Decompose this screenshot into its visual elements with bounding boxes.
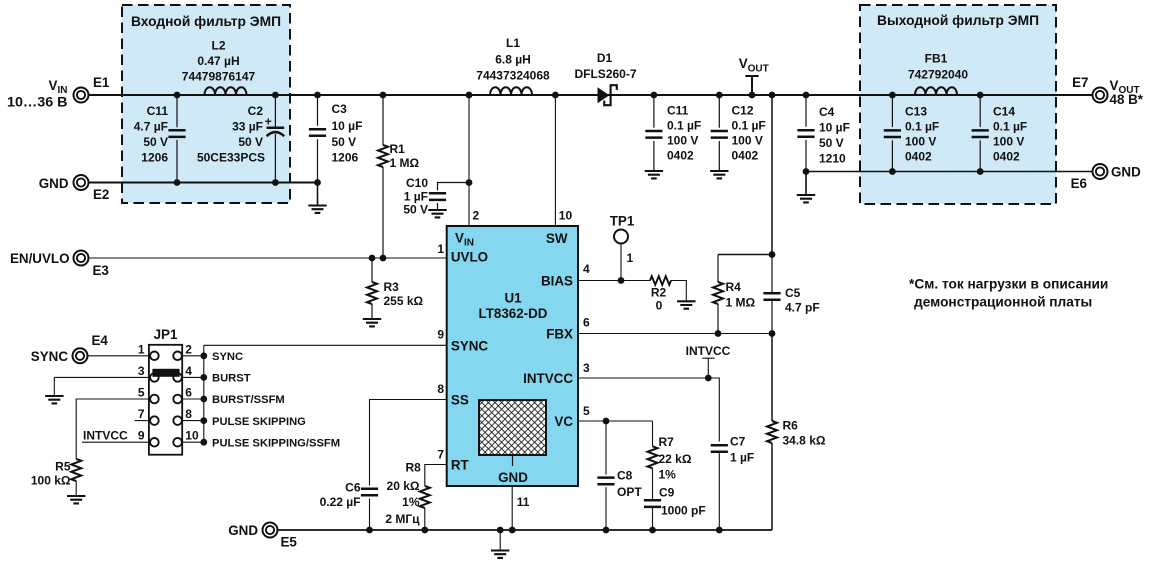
- wire: EN/UVLO line to pin 1: [89, 257, 447, 259]
- svg-text:INTVCC: INTVCC: [523, 371, 573, 386]
- wire: main top rail VIN to VOUT: [89, 94, 1093, 96]
- JP1 pin circles right column: [173, 352, 182, 361]
- capacitor C12: [718, 95, 720, 171]
- svg-text:R2: R2: [651, 286, 667, 300]
- wire: VC pin 5 line: [578, 420, 653, 422]
- node: junction C11 output: [651, 92, 658, 99]
- node: junction C2 top: [272, 92, 279, 99]
- capacitor C11 output: [653, 95, 655, 171]
- capacitor C3: [317, 95, 319, 183]
- svg-text:R6: R6: [783, 419, 799, 433]
- capacitor C11 input: [176, 95, 178, 183]
- JP1 pin circles left column: [150, 352, 159, 361]
- svg-text:INTVCC: INTVCC: [83, 429, 128, 443]
- svg-text:BIAS: BIAS: [541, 273, 573, 288]
- input EMI filter box: [122, 5, 290, 203]
- svg-text:100 V: 100 V: [993, 135, 1024, 149]
- svg-text:D1: D1: [597, 51, 613, 65]
- node: junction C14 bottom: [977, 168, 984, 175]
- svg-text:2: 2: [185, 342, 192, 356]
- capacitor C2 (polarized): [274, 95, 276, 183]
- node: junction C6 bottom: [366, 527, 373, 534]
- wire: JP1 pin3 to ground: [54, 377, 150, 396]
- svg-text:50 V: 50 V: [238, 135, 263, 149]
- svg-text:Выходной фильтр ЭМП: Выходной фильтр ЭМП: [877, 13, 1039, 28]
- svg-text:SYNC: SYNC: [31, 349, 69, 364]
- svg-text:1 МΩ: 1 МΩ: [390, 156, 420, 170]
- resistor R5: [71, 459, 81, 481]
- ground below C12: [710, 171, 728, 178]
- svg-text:SYNC: SYNC: [212, 351, 243, 363]
- resistor R4: [717, 255, 719, 334]
- svg-text:10 µF: 10 µF: [332, 119, 363, 133]
- svg-text:RT: RT: [451, 457, 470, 472]
- svg-text:1 МΩ: 1 МΩ: [726, 296, 756, 310]
- svg-text:1%: 1%: [659, 467, 677, 481]
- resistor R3: [371, 258, 373, 319]
- svg-text:34.8 kΩ: 34.8 kΩ: [783, 434, 826, 448]
- svg-text:0.1 µF: 0.1 µF: [732, 119, 766, 133]
- svg-text:GND: GND: [498, 470, 528, 485]
- svg-text:5: 5: [583, 404, 590, 418]
- svg-text:1206: 1206: [332, 151, 359, 165]
- svg-text:E1: E1: [93, 75, 110, 90]
- svg-text:C7: C7: [730, 434, 746, 448]
- wire: BIAS pin 4: [578, 280, 650, 282]
- svg-text:74437324068: 74437324068: [476, 69, 550, 83]
- node: junction C3 top: [314, 92, 321, 99]
- wire: RT pin 7 to R8: [425, 465, 447, 487]
- svg-text:Входной фильтр ЭМП: Входной фильтр ЭМП: [131, 14, 281, 29]
- svg-text:C14: C14: [993, 105, 1015, 119]
- resistor R6: [771, 334, 773, 531]
- svg-text:L2: L2: [211, 39, 225, 53]
- wire: JP1 pin7 stub: [135, 420, 151, 422]
- node: junction R4 FBX: [715, 330, 722, 337]
- svg-text:E4: E4: [92, 333, 109, 348]
- node: junction C4 bottom: [803, 168, 810, 175]
- capacitor C14: [979, 95, 981, 172]
- svg-text:C13: C13: [905, 105, 927, 119]
- svg-text:6: 6: [185, 386, 192, 400]
- wire: input GND rail: [89, 182, 318, 184]
- svg-text:0402: 0402: [993, 150, 1020, 164]
- ground below R3: [363, 319, 381, 326]
- svg-text:0: 0: [656, 299, 663, 313]
- ground below C3: [317, 183, 319, 206]
- svg-text:E5: E5: [281, 535, 298, 550]
- node: junction C12: [716, 92, 723, 99]
- svg-text:EN/UVLO: EN/UVLO: [10, 251, 70, 266]
- svg-text:100 V: 100 V: [667, 134, 698, 148]
- wire: JP1 pin9 stub: [82, 441, 150, 443]
- svg-text:OPT: OPT: [617, 485, 642, 499]
- svg-text:GND: GND: [1111, 165, 1141, 180]
- svg-text:VC: VC: [554, 414, 573, 429]
- node: junction C4 top: [803, 92, 810, 99]
- terminal E2: [74, 175, 89, 190]
- node: junction C3 bottom: [314, 179, 321, 186]
- svg-text:E3: E3: [93, 263, 109, 278]
- svg-text:10: 10: [559, 209, 573, 223]
- svg-text:1206: 1206: [141, 151, 168, 165]
- ground below C4: [805, 172, 807, 196]
- wire: JP1 right bus: [182, 345, 204, 442]
- svg-text:4: 4: [583, 262, 590, 276]
- svg-text:SW: SW: [546, 231, 568, 246]
- svg-text:R4: R4: [726, 280, 742, 294]
- node: junction C5 FBX: [769, 330, 776, 337]
- svg-text:8: 8: [437, 382, 444, 396]
- svg-text:0402: 0402: [667, 149, 694, 163]
- ground below C11 output: [645, 171, 663, 178]
- svg-text:BURST: BURST: [212, 373, 251, 385]
- svg-text:R3: R3: [384, 280, 400, 294]
- U1 exposed pad (crosshatch): [479, 400, 546, 455]
- svg-text:10 µF: 10 µF: [819, 121, 850, 135]
- node: junction rail ground: [497, 527, 504, 534]
- output EMI filter box: [860, 5, 1056, 204]
- capacitor C8: [605, 421, 607, 530]
- svg-text:5: 5: [138, 386, 145, 400]
- svg-text:E7: E7: [1072, 75, 1088, 90]
- wire: INTVCC pin 3 line: [578, 378, 719, 442]
- ground below C10: [428, 210, 446, 217]
- diode D1 DFLS260-7: [598, 87, 610, 103]
- svg-text:TP1: TP1: [610, 214, 635, 229]
- node: junction C13 top: [889, 92, 896, 99]
- svg-text:BURST/SSFM: BURST/SSFM: [212, 394, 285, 406]
- inductor L2: [205, 87, 247, 95]
- node: junction SW rail: [552, 92, 559, 99]
- node: junction C10 tap: [466, 179, 473, 186]
- svg-text:1210: 1210: [819, 152, 846, 166]
- svg-text:1000 pF: 1000 pF: [661, 504, 706, 518]
- svg-text:742792040: 742792040: [908, 68, 968, 82]
- node: junction R3 top: [369, 255, 376, 262]
- node: junction C14 top: [977, 92, 984, 99]
- svg-text:22 kΩ: 22 kΩ: [659, 452, 692, 466]
- svg-text:L1: L1: [506, 36, 520, 50]
- wire: FBX pin 6 line: [578, 333, 772, 335]
- ferrite bead FB1: [915, 87, 957, 95]
- node: junction R1 bottom: [380, 255, 387, 262]
- resistor R8: [420, 486, 430, 508]
- svg-text:GND: GND: [228, 523, 258, 538]
- svg-text:PULSE SKIPPING/SSFM: PULSE SKIPPING/SSFM: [212, 437, 340, 449]
- wire: JP1 pin5 to R5: [76, 399, 150, 459]
- terminal E5: [263, 523, 278, 538]
- node: junction C11 top: [174, 92, 181, 99]
- svg-text:1: 1: [138, 342, 145, 356]
- svg-text:INTVCC: INTVCC: [686, 344, 731, 358]
- svg-text:6.8 µH: 6.8 µH: [495, 53, 531, 67]
- terminal E4: [73, 348, 88, 363]
- ground at JP1 pin3: [45, 396, 63, 403]
- ground below R2: [677, 301, 695, 308]
- svg-text:0402: 0402: [732, 149, 759, 163]
- terminal E1: [74, 88, 89, 103]
- svg-text:2: 2: [473, 209, 480, 223]
- svg-text:R5: R5: [55, 460, 71, 474]
- svg-text:FBX: FBX: [546, 326, 573, 341]
- node: junction INTVCC: [705, 375, 712, 382]
- svg-text:100 V: 100 V: [732, 134, 763, 148]
- svg-text:C6: C6: [345, 480, 361, 494]
- svg-text:4.7 µF: 4.7 µF: [134, 120, 168, 134]
- svg-text:SYNC: SYNC: [451, 338, 489, 353]
- svg-text:1%: 1%: [402, 495, 420, 509]
- svg-text:C9: C9: [659, 486, 675, 500]
- capacitor C5: [771, 255, 773, 334]
- node: junction R8 bottom: [421, 527, 428, 534]
- wire: SYNC line to pin 9: [204, 344, 447, 346]
- svg-text:100 V: 100 V: [905, 135, 936, 149]
- wire: pin 11 to GND rail: [511, 486, 513, 530]
- svg-text:7: 7: [138, 407, 145, 421]
- node: junction R1 top: [380, 92, 387, 99]
- svg-text:R1: R1: [390, 142, 406, 156]
- wire: SS pin 8 to C6: [370, 400, 447, 486]
- node: junction C2 bottom: [272, 179, 279, 186]
- capacitor C10: [438, 183, 470, 211]
- svg-text:+: +: [265, 114, 272, 128]
- svg-text:0.47 µH: 0.47 µH: [197, 54, 239, 68]
- terminal E6: [1093, 164, 1108, 179]
- svg-text:10…36 В: 10…36 В: [7, 95, 68, 110]
- capacitor C13: [891, 95, 893, 172]
- node: junction C8 bottom: [603, 527, 610, 534]
- svg-text:C10: C10: [406, 176, 428, 190]
- svg-text:50CE33PCS: 50CE33PCS: [197, 151, 265, 165]
- svg-text:UVLO: UVLO: [451, 250, 488, 265]
- capacitor C7: [711, 445, 728, 452]
- svg-text:50 V: 50 V: [143, 135, 168, 149]
- op-amp/IC U1 LT8362-DD body: [447, 226, 578, 486]
- node: junction pin2 rail: [466, 92, 473, 99]
- svg-text:11: 11: [517, 495, 530, 509]
- svg-text:9: 9: [437, 328, 444, 342]
- svg-text:74479876147: 74479876147: [182, 69, 256, 83]
- node: junction C7 bottom: [716, 527, 723, 534]
- connector JP1 body: [149, 345, 182, 455]
- svg-text:50 V: 50 V: [332, 135, 357, 149]
- svg-text:C5: C5: [785, 286, 801, 300]
- wire: pin 2 VIN vertical: [468, 95, 470, 226]
- svg-text:C11: C11: [667, 104, 689, 118]
- svg-text:1: 1: [627, 251, 634, 265]
- wire: pin 10 SW vertical: [554, 95, 556, 226]
- svg-text:LT8362-DD: LT8362-DD: [479, 306, 548, 321]
- svg-text:C2: C2: [248, 104, 264, 118]
- svg-text:100 kΩ: 100 kΩ: [31, 473, 71, 487]
- ground below R5: [67, 496, 85, 503]
- svg-text:2 МГц: 2 МГц: [385, 512, 420, 526]
- wire: output GND rail: [806, 171, 1093, 173]
- svg-text:3: 3: [138, 364, 145, 378]
- terminal E7: [1093, 88, 1108, 103]
- svg-text:C8: C8: [617, 468, 633, 482]
- svg-text:0.1 µF: 0.1 µF: [905, 120, 939, 134]
- node: junction C9 bottom: [649, 527, 656, 534]
- svg-text:4.7 pF: 4.7 pF: [785, 301, 820, 315]
- svg-text:48 В*: 48 В*: [1110, 92, 1144, 107]
- svg-text:DFLS260-7: DFLS260-7: [574, 67, 636, 81]
- node: junction C8 tap: [603, 418, 610, 425]
- svg-text:255 kΩ: 255 kΩ: [384, 294, 424, 308]
- svg-text:C12: C12: [732, 104, 754, 118]
- wire: E4 to JP1 pin 1: [88, 355, 151, 357]
- node: junction C13 bottom: [889, 168, 896, 175]
- node: bus junctions: [200, 352, 207, 359]
- svg-text:3: 3: [583, 361, 590, 375]
- svg-text:C4: C4: [819, 105, 835, 119]
- svg-text:0.1 µF: 0.1 µF: [993, 120, 1027, 134]
- svg-text:C3: C3: [332, 102, 348, 116]
- svg-text:9: 9: [138, 429, 145, 443]
- svg-text:E2: E2: [93, 187, 109, 202]
- svg-text:0.1 µF: 0.1 µF: [667, 119, 701, 133]
- node: junction pin11: [509, 527, 516, 534]
- svg-text:C11: C11: [147, 104, 169, 118]
- svg-text:20 kΩ: 20 kΩ: [387, 479, 420, 493]
- inductor L1: [490, 87, 532, 95]
- svg-text:демонстрационной платы: демонстрационной платы: [914, 295, 1092, 310]
- terminal E3: [74, 251, 89, 266]
- node VOUT stub: [745, 76, 758, 95]
- svg-text:4: 4: [185, 364, 192, 378]
- svg-text:PULSE SKIPPING: PULSE SKIPPING: [212, 416, 306, 428]
- node: junction C11 bottom: [174, 179, 181, 186]
- svg-text:FB1: FB1: [925, 52, 948, 66]
- resistor R2: [650, 276, 671, 285]
- svg-text:E6: E6: [1071, 176, 1087, 191]
- svg-text:1: 1: [437, 242, 444, 256]
- svg-text:0402: 0402: [905, 150, 932, 164]
- svg-text:8: 8: [185, 407, 192, 421]
- resistor R7: [652, 421, 654, 500]
- svg-text:SS: SS: [451, 392, 469, 407]
- svg-text:GND: GND: [39, 176, 69, 191]
- JP1 shunt jumper pins 3-4: [152, 369, 179, 377]
- svg-text:0.22 µF: 0.22 µF: [320, 495, 361, 509]
- node: junction TP1 BIAS: [618, 277, 625, 284]
- svg-text:R7: R7: [659, 435, 675, 449]
- capacitor C6: [361, 489, 378, 496]
- svg-text:1 µF: 1 µF: [730, 451, 754, 465]
- wire: bottom GND rail: [277, 529, 772, 531]
- svg-text:7: 7: [437, 448, 444, 462]
- svg-text:U1: U1: [504, 291, 522, 306]
- svg-text:50 V: 50 V: [819, 136, 844, 150]
- wire: VOUT rail down to divider: [718, 95, 772, 255]
- svg-text:6: 6: [583, 316, 590, 330]
- svg-text:R8: R8: [405, 461, 421, 475]
- resistor R1: [382, 95, 384, 258]
- capacitor C4: [805, 95, 807, 172]
- test point TP1: [614, 230, 628, 244]
- svg-text:JP1: JP1: [154, 327, 178, 342]
- node: junction divider top: [769, 251, 776, 258]
- wire: pad to GND label: [512, 455, 514, 466]
- ground below rail: [499, 530, 501, 551]
- svg-text:*См. ток нагрузки в описании: *См. ток нагрузки в описании: [909, 277, 1108, 292]
- svg-text:1 µF: 1 µF: [404, 189, 428, 203]
- svg-text:33 µF: 33 µF: [232, 120, 263, 134]
- svg-text:50 V: 50 V: [403, 203, 428, 217]
- svg-text:10: 10: [185, 429, 199, 443]
- capacitor C9: [644, 500, 661, 507]
